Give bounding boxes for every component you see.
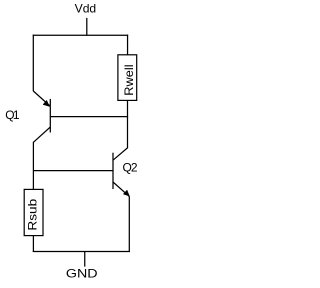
svg-text:Rwell: Rwell [122,64,136,95]
transistor Q1 emitter wire [33,91,50,106]
svg-text:Q1: Q1 [5,108,20,122]
transistor Q1 collector wire [33,127,50,142]
transistor Q1 emitter arrow (PNP, points into base) [43,100,49,106]
resistor Rwell [118,55,137,101]
transistor Q2 emitter arrow (NPN, points out) [123,190,129,196]
wire right rail upper [127,35,129,56]
wire left rail middle (Q1 collector to Rsub) [32,142,34,190]
wire Rsub bottom to ground rail [32,236,34,252]
transistor Q2 base bar [112,153,114,189]
resistor Rsub [24,189,43,235]
transistor Q2 emitter wire [113,182,129,197]
wire Vdd stem [86,18,88,36]
transistor Q2 collector wire [113,148,128,161]
wire Q1 base to right rail [50,116,128,118]
svg-text:Vdd: Vdd [75,1,97,15]
svg-text:Q2: Q2 [123,160,138,174]
svg-text:GND: GND [66,266,98,280]
wire right rail lower (Q2 emitter to ground rail) [128,196,130,252]
wire top rail [33,34,128,36]
wire bottom rail [33,250,130,252]
wire Rwell bottom to collector node [127,100,129,147]
wire Q2 base from left rail [33,170,113,172]
wire left rail upper [32,35,34,92]
transistor Q1 base bar [49,99,51,133]
svg-text:Rsub: Rsub [26,198,40,230]
wire GND stem [84,251,86,266]
